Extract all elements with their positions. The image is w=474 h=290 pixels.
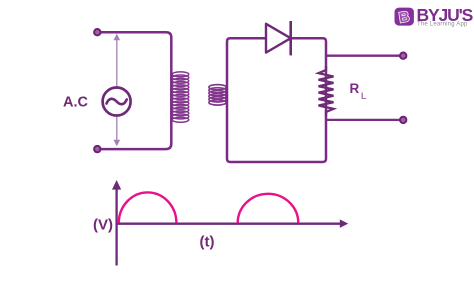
waveform hump 2 (238, 194, 299, 223)
waveform hump 1 (119, 192, 177, 223)
svg-text:L: L (361, 91, 367, 101)
node: output terminal top (400, 53, 406, 59)
inductor L1: transformer primary coil (172, 72, 189, 122)
svg-text:(V): (V) (93, 216, 113, 233)
wire: output tap top (326, 55, 403, 57)
resistor RL: zigzag (319, 66, 334, 116)
voltage arrow (double-headed, between input terminals) (114, 34, 121, 147)
source V1: AC source circle (103, 88, 131, 116)
wire: secondary loop (rectangle with gap for diode) (227, 38, 326, 162)
graph V axis (112, 180, 121, 266)
BYJU'S logo: white B glyph (398, 9, 411, 26)
BYJU'S logo: icon square (395, 8, 414, 26)
node: input terminal top (94, 29, 100, 35)
node: input terminal bottom (94, 146, 100, 152)
wire: output tap bottom (326, 119, 403, 121)
graph t axis (116, 219, 349, 228)
diode D1: triangle (266, 24, 291, 53)
diode D1: cathode bar (289, 21, 292, 55)
svg-text:A.C: A.C (63, 95, 89, 111)
sine symbol inside AC source (107, 99, 127, 104)
inductor L2: transformer secondary coil (209, 85, 226, 106)
svg-text:(t): (t) (200, 233, 215, 250)
wire: primary loop (input terminals to transformer primary) (97, 32, 171, 149)
svg-text:The Learning App: The Learning App (417, 22, 468, 28)
node: output terminal bottom (400, 117, 406, 123)
svg-text:R: R (350, 81, 360, 96)
